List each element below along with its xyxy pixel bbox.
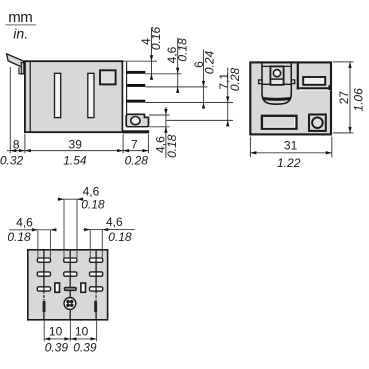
svg-text:10: 10: [75, 325, 89, 339]
svg-text:1.06: 1.06: [352, 88, 366, 112]
svg-text:mm: mm: [8, 9, 32, 26]
svg-text:4,6: 4,6: [83, 184, 100, 198]
svg-text:4,6: 4,6: [106, 215, 123, 229]
svg-text:0.28: 0.28: [125, 154, 149, 168]
svg-text:10: 10: [49, 325, 63, 339]
svg-text:0.28: 0.28: [228, 67, 242, 91]
svg-text:0.18: 0.18: [108, 230, 132, 244]
svg-text:0.32: 0.32: [0, 154, 24, 168]
svg-text:0.39: 0.39: [45, 341, 69, 355]
svg-text:0.16: 0.16: [149, 26, 163, 50]
svg-text:1.54: 1.54: [63, 154, 87, 168]
svg-text:0.18: 0.18: [165, 134, 179, 158]
svg-text:0.18: 0.18: [81, 198, 105, 212]
svg-text:31: 31: [284, 139, 298, 153]
svg-text:0.39: 0.39: [73, 341, 97, 355]
svg-text:8: 8: [13, 137, 20, 151]
svg-text:in.: in.: [13, 25, 28, 41]
svg-text:1.22: 1.22: [277, 156, 301, 170]
svg-text:7: 7: [131, 138, 138, 152]
svg-text:4,6: 4,6: [16, 215, 33, 229]
svg-text:0.18: 0.18: [7, 230, 31, 244]
svg-text:39: 39: [69, 138, 83, 152]
svg-text:0.24: 0.24: [203, 50, 217, 74]
svg-text:0.18: 0.18: [175, 38, 189, 62]
svg-text:27: 27: [337, 91, 351, 105]
